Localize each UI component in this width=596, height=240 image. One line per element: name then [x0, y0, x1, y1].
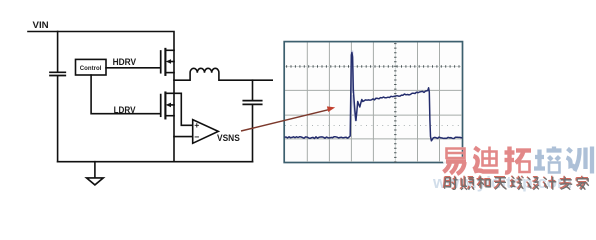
svg-text:VIN: VIN: [33, 20, 49, 30]
svg-text:Control: Control: [80, 65, 102, 72]
svg-text:VSNS: VSNS: [217, 133, 240, 143]
svg-text:LDRV: LDRV: [114, 105, 136, 115]
svg-text:HDRV: HDRV: [113, 57, 137, 67]
